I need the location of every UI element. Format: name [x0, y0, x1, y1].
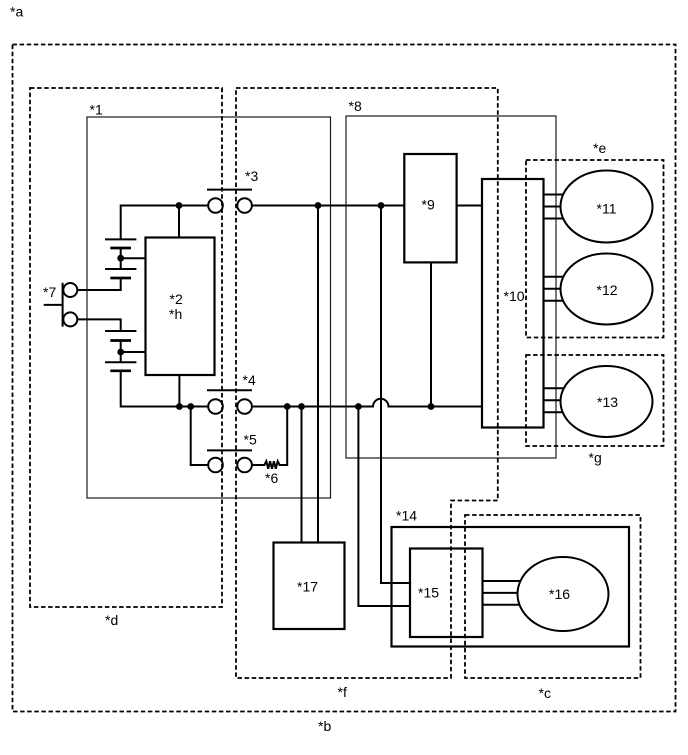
node dot on *3 net at x=318 [315, 202, 322, 209]
svg-text:*2: *2 [170, 291, 183, 307]
battery upper cell 1 short plate [110, 247, 131, 250]
wire: top net down to box *2 top [178, 206, 180, 238]
svg-text:*11: *11 [597, 201, 617, 217]
enclosure box *8 [346, 116, 556, 458]
switch *4 bar [207, 389, 252, 391]
svg-text:*f: *f [338, 684, 347, 700]
battery lower cell 1 short plate [110, 339, 131, 342]
battery upper inter-cell wire [120, 248, 122, 269]
svg-text:*4: *4 [243, 372, 256, 388]
node dot branch to *15 lower [355, 403, 362, 410]
dashed box *g [526, 355, 664, 446]
block *2 [146, 238, 215, 376]
switch *3 right contact [237, 198, 252, 213]
wire: switch *3 output net to box *10 [252, 205, 482, 207]
battery upper cell 1 long plate [105, 238, 136, 240]
svg-text:*5: *5 [244, 432, 257, 448]
wire: battery top to switch *3 [121, 206, 209, 240]
switch *5 right contact [237, 458, 252, 473]
node dot bottom net branch to *5 [187, 403, 194, 410]
node dot to *9 bottom [428, 403, 435, 410]
triple lines *10 to *11 [544, 195, 567, 219]
triple lines *10 to *13 [544, 388, 567, 412]
resistor *6 [252, 407, 287, 469]
dashed box *e [526, 160, 664, 338]
svg-text:*e: *e [593, 140, 606, 156]
wire: branch down to switch *5 [191, 407, 209, 466]
switch *4 left contact [208, 399, 223, 414]
dashed box *c [465, 515, 641, 678]
battery lower cell 1 long plate [105, 330, 136, 332]
wire: switch *4 output with hop over x=381 [252, 399, 482, 407]
motor *16 [518, 557, 609, 631]
battery lower cell 2 long plate [105, 361, 136, 363]
node dot from resistor *6 branch [284, 403, 291, 410]
wire: x=358.4 down then right into box *15 lower input [358, 407, 410, 607]
svg-text:*g: *g [589, 450, 602, 466]
svg-text:*d: *d [105, 612, 118, 628]
wire: battery upper bottom to connector *7 top [77, 278, 120, 290]
node dot bottom net under box *2 [176, 403, 183, 410]
svg-text:*7: *7 [43, 284, 56, 300]
svg-text:*15: *15 [418, 585, 439, 601]
svg-text:*6: *6 [265, 470, 278, 486]
svg-text:*9: *9 [422, 197, 435, 213]
triple lines *15 to *16 [483, 581, 523, 605]
svg-text:*12: *12 [597, 282, 618, 298]
block *15 [410, 549, 483, 638]
node dot branch to *17 [298, 403, 305, 410]
motor *11 [561, 171, 653, 243]
block *10 [482, 179, 544, 428]
svg-text:*b: *b [318, 718, 331, 734]
svg-text:*13: *13 [597, 394, 618, 410]
battery lower inter-cell wire [120, 341, 122, 363]
battery lower mid node dot [117, 349, 124, 356]
svg-text:*8: *8 [349, 98, 362, 114]
svg-text:*3: *3 [245, 168, 258, 184]
svg-text:*14: *14 [396, 508, 417, 524]
switch *5 bar [207, 449, 252, 451]
wire: box *9 bottom to bottom net [430, 262, 432, 406]
dashed box *d [30, 88, 222, 607]
node dot on *3 net at x=381 [378, 202, 385, 209]
switch *3 left contact [208, 198, 223, 213]
node dot on top net above box *2 [176, 202, 183, 209]
wire: x=301.5 down to box *17 [301, 407, 303, 543]
switch *3 bar [207, 189, 252, 191]
enclosure box *1 [87, 117, 331, 498]
svg-text:*h: *h [169, 306, 182, 322]
wire: battery lower tap to box *2 [121, 351, 146, 353]
enclosure box *14 [392, 527, 630, 647]
wire: x=318 down to box *17 [317, 206, 319, 543]
connector *7 top circle [63, 283, 77, 297]
svg-text:*1: *1 [90, 102, 103, 118]
svg-text:*17: *17 [297, 579, 318, 595]
connector *7 bracket [62, 283, 64, 327]
wire: x=381 down then right into box *15 upper input [381, 206, 410, 584]
block *17 [274, 543, 345, 630]
motor *12 [561, 254, 653, 325]
battery upper cell 2 short plate [110, 277, 131, 280]
switch *5 left contact [208, 458, 223, 473]
dashed box *f (notched bottom-right) [236, 88, 498, 678]
block *9 [404, 154, 456, 262]
battery upper mid node dot [117, 255, 124, 262]
switch *4 right contact [237, 399, 252, 414]
svg-text:*16: *16 [549, 586, 570, 602]
battery lower cell 2 short plate [110, 369, 131, 372]
connector *7 bottom circle [63, 312, 77, 326]
wire: box *2 bottom down to bottom net [178, 375, 180, 407]
wire: battery upper tap to box *2 [121, 257, 146, 259]
svg-text:*10: *10 [504, 288, 525, 304]
triple lines *10 to *12 [544, 277, 567, 301]
svg-text:*a: *a [10, 4, 23, 20]
wire: connector *7 bottom to battery lower top [77, 319, 120, 331]
wire: battery bottom to switch *4 [121, 371, 209, 407]
svg-text:*c: *c [539, 685, 551, 701]
motor *13 [561, 366, 653, 437]
connector *7 stub [44, 304, 63, 306]
battery upper cell 2 long plate [105, 268, 136, 270]
